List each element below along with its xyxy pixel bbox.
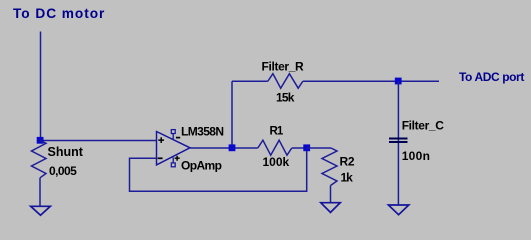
wire: N2 up to filter rail [231,81,233,148]
svg-text:To ADC port: To ADC port [459,70,524,84]
op-amp V+ power pin square (bottom) [172,157,174,163]
svg-text:LM358N: LM358N [181,125,223,139]
resistor Filter_R (zigzag body) [268,74,303,89]
wire: N1 to op-amp + input [40,140,157,142]
op-amp V- power pin square (top) [172,134,174,140]
resistor R2 (zigzag body) [322,148,337,186]
wire: R2 bottom to ground [330,186,332,203]
wire: R1 to node N3 [292,147,307,149]
ground (under Filter_C) [388,205,408,215]
wire: rail right segment to ADC port [303,80,439,82]
svg-text:OpAmp: OpAmp [181,159,222,173]
svg-text:0,005: 0,005 [49,164,77,178]
op-amp V+ pin plus mark [175,156,180,161]
op-amp U1 triangle [157,132,191,165]
wire: feedback from - input (left, down, right, up to node N3) [130,148,307,192]
svg-text:Filter_R: Filter_R [262,60,305,74]
op-amp - input mark [158,157,163,159]
svg-text:15k: 15k [276,91,295,105]
ground (under R2) [321,203,340,213]
svg-text:Filter_C: Filter_C [402,119,445,133]
op-amp + input mark [158,137,164,143]
node N1 (junction at shunt top) [37,137,44,144]
svg-text:1k: 1k [341,171,354,185]
wire: N4 down through Filter_C [397,81,399,205]
wire: op-amp output to node N2 [190,147,232,149]
svg-text:R2: R2 [340,155,355,169]
svg-text:R1: R1 [270,126,284,138]
node N3 (R1/R2/feedback junction) [303,144,310,151]
svg-text:Shunt: Shunt [48,145,84,159]
resistor Shunt (zigzag body) [32,140,47,178]
svg-text:To DC motor: To DC motor [13,6,105,21]
wire: DC motor drop (vertical from label to node N1) [40,32,42,141]
node N4 (filter cap junction) [395,78,402,85]
wire: N2 to R1 [235,147,258,149]
resistor R1 (zigzag body) [258,140,292,155]
node N2 (op-amp output junction) [229,144,236,151]
ground (under Shunt) [31,206,51,215]
svg-text:100k: 100k [263,155,290,169]
capacitor Filter_C top plate [389,138,408,140]
wire: shunt bottom to ground [39,178,41,207]
wire: rail left segment to Filter_R [232,80,268,82]
svg-text:100n: 100n [402,149,431,163]
wire: N3 to R2 top [307,147,331,149]
op-amp V- pin minus mark [176,137,180,139]
capacitor Filter_C bottom plate [389,141,408,143]
